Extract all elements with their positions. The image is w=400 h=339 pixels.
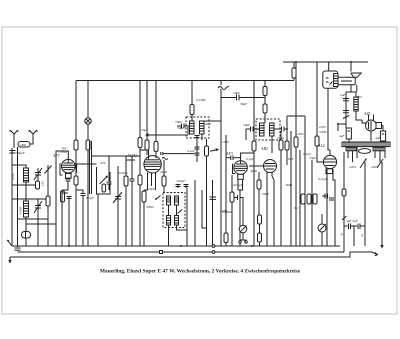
arrow mains right [372, 252, 378, 256]
potentiometer P-vol [239, 211, 247, 240]
capacitor C-y156b [130, 156, 135, 246]
resistor Rk2 [142, 190, 146, 246]
svg-text:30μF: 30μF [177, 126, 185, 130]
svg-text:AL5: AL5 [204, 122, 211, 126]
wire y160 link [126, 159, 135, 161]
capacitor C-b1 [67, 197, 72, 199]
switch S1 [343, 116, 349, 119]
svg-text:250V: 250V [297, 132, 305, 136]
svg-text:50μF: 50μF [243, 123, 251, 127]
wire drop x156 [155, 81, 157, 142]
capacitor C5b [358, 224, 365, 230]
svg-text:GBD: GBD [20, 143, 27, 147]
capacitor C-IF1-left [177, 124, 190, 129]
svg-text:38μF: 38μF [240, 102, 248, 106]
capacitor C20 [322, 194, 328, 199]
capacitor trimmer T3 [113, 192, 122, 203]
wire speaker tail [350, 85, 352, 93]
wire stub x354 [353, 226, 355, 246]
wire x272 drop [272, 176, 274, 246]
resistor R17 [342, 189, 346, 252]
capacitor trimmer T1 [34, 168, 42, 185]
wire HT bus B [76, 80, 294, 82]
coil L1 [24, 168, 29, 182]
wire AL4 plate [328, 88, 330, 150]
wire x267 drop [266, 180, 268, 246]
wire L-link [202, 190, 207, 228]
wire grid cap ACH1 [140, 150, 149, 157]
svg-text:4MΩ: 4MΩ [250, 169, 258, 173]
wire plate to IF1 [168, 153, 195, 155]
coil GBD box [18, 142, 30, 148]
node J4 [337, 123, 339, 125]
wire rail x56 [55, 160, 57, 246]
svg-text:60V: 60V [288, 157, 294, 161]
resistor Rg3 [138, 157, 142, 246]
wire T-out primary up [328, 62, 330, 71]
wire x118 rail [117, 166, 119, 246]
resistor R7 [263, 86, 267, 98]
wire AF7 plate [75, 163, 97, 165]
svg-text:50μF: 50μF [141, 128, 149, 132]
capacitor El1 [346, 128, 351, 142]
arrow mains right2 [381, 240, 383, 248]
coil Losc4 [175, 216, 179, 226]
lamp dial [85, 118, 91, 124]
coil IF1a [190, 121, 195, 134]
resistor R16 [315, 62, 323, 162]
capacitor C-IF2-left [246, 127, 260, 132]
svg-text:30μF: 30μF [262, 192, 270, 196]
wire speaker drop [350, 62, 352, 72]
transformer T-out box [323, 71, 338, 88]
wire x187 rail [186, 188, 188, 246]
resistor R3b [145, 140, 149, 155]
wire AB2 stubs [266, 172, 268, 180]
svg-text:50μF: 50μF [309, 156, 317, 160]
wire drop x254 [253, 81, 255, 141]
wire AVC y97 [221, 97, 236, 99]
switch voltage selector [360, 159, 366, 168]
resistor R1 [74, 137, 78, 155]
resistor R-a2 [46, 196, 50, 206]
capacitor C-det2 [195, 139, 200, 162]
capacitor C-IF2-right [274, 127, 288, 132]
capacitor trimmer T0 [45, 166, 52, 174]
coil IF2b [270, 123, 275, 136]
wire ant links [13, 141, 15, 148]
svg-text:50μF: 50μF [233, 91, 241, 95]
wire rail x83 [82, 196, 84, 246]
wire y226 [344, 225, 348, 227]
resistor Ro1 [162, 160, 166, 193]
resistor R15 [313, 194, 317, 204]
svg-text:4μF: 4μF [375, 136, 381, 140]
resistor R6 [252, 140, 256, 158]
transformer T-mains sec L [346, 148, 357, 151]
svg-text:1MΩ: 1MΩ [277, 136, 285, 140]
connector sq1 [160, 251, 163, 254]
capacitor C-osc-pad [210, 197, 217, 199]
svg-text:20μF: 20μF [148, 187, 156, 191]
svg-text:2MΩ: 2MΩ [285, 183, 293, 187]
tube AF3 [233, 161, 248, 180]
wire x236 link [238, 189, 240, 191]
wire AF7 cathode [67, 173, 69, 179]
resistor Rg2 [124, 156, 128, 246]
wire AF3 plate [249, 165, 263, 167]
node J3 [68, 245, 70, 247]
capacitor C-det [234, 195, 243, 211]
svg-text:5μF 5μF: 5μF 5μF [346, 219, 359, 223]
coil Losc1 [167, 196, 171, 205]
tube AZ1 [366, 115, 382, 132]
svg-text:AF3: AF3 [225, 151, 233, 156]
resistor R5 [190, 104, 194, 117]
wire y193 [62, 192, 68, 194]
capacitor C-ach [161, 152, 168, 155]
resistor R-det [205, 146, 209, 156]
svg-text:150: 150 [41, 181, 45, 186]
coil Losc3 [167, 216, 171, 226]
speaker horn [351, 73, 361, 77]
svg-text:4μF: 4μF [339, 134, 345, 138]
wire x208 rail + resistor det [206, 139, 208, 246]
wire IF1 in/out [191, 117, 193, 121]
svg-text:40V: 40V [100, 161, 106, 165]
svg-text:ACH1: ACH1 [126, 153, 137, 158]
capacitor CIF1 [195, 135, 200, 139]
coil IF1b [200, 121, 205, 134]
wire x296 rail [295, 62, 297, 246]
resistor R-sg [74, 176, 78, 185]
resistor R8 [263, 98, 267, 120]
capacitor Cosc1 [176, 184, 181, 188]
wire x212 rail [212, 180, 214, 246]
svg-text:2MΩ: 2MΩ [160, 170, 168, 174]
svg-text:170V: 170V [355, 95, 363, 99]
wire x305 rail [304, 116, 306, 246]
wire AZ1 leads [362, 120, 366, 123]
resistor R10 [279, 131, 283, 246]
wire x98 drop [97, 194, 99, 246]
resistor Rk3 [230, 175, 234, 246]
wire mains rail x344 [343, 152, 345, 189]
svg-text:240V: 240V [371, 165, 379, 169]
choke Lf [354, 92, 362, 120]
coil IF2a [260, 123, 265, 136]
svg-text:2μF: 2μF [340, 93, 346, 97]
resistor R-k [61, 191, 65, 202]
wire y135 link [146, 127, 188, 136]
ground left [7, 240, 12, 246]
svg-text:0,1: 0,1 [361, 233, 364, 237]
capacitor Cf1 [343, 99, 349, 101]
resistor R4 [154, 141, 158, 154]
wire AL4 below [326, 169, 328, 246]
connector sq2 [212, 245, 215, 248]
wire rail x48 [47, 165, 49, 246]
capacitor C-k2 [76, 190, 86, 196]
wire x69 drop [68, 196, 70, 246]
svg-text:50Hz~: 50Hz~ [319, 130, 328, 134]
coil L2 [24, 201, 29, 217]
tube ACH1 [144, 152, 161, 173]
svg-text:100μF: 100μF [177, 179, 187, 183]
resistor R-AB3 [258, 233, 262, 246]
wire drop x88 [87, 81, 89, 119]
capacitor C-bot [15, 248, 21, 250]
wire IF2 in/out [264, 119, 266, 123]
wire tuner connections [12, 165, 26, 168]
capacitor C-y156a [107, 156, 112, 190]
antenna A1 [10, 131, 19, 142]
wire AF3 stubs [237, 179, 239, 190]
resistor R2 [86, 139, 90, 155]
wire drop x76 [75, 81, 77, 138]
resistor R-ant [36, 181, 40, 189]
wire x221 lower [220, 89, 222, 246]
svg-text:Mauerling, Einzel Super E 47 W: Mauerling, Einzel Super E 47 W, Wechsels… [100, 269, 301, 275]
wire x300 rail [299, 150, 301, 246]
resistor R14 [307, 194, 311, 204]
svg-text:220V: 220V [349, 165, 357, 169]
transformer T-mains sec R [373, 148, 385, 151]
speaker driver [338, 77, 355, 84]
wire drop x147 [146, 81, 148, 141]
wire HT bus A [283, 61, 368, 63]
wire rail x17.5 [17, 147, 19, 247]
wire drop x192 [191, 81, 193, 105]
resistor R-226 [224, 233, 228, 243]
wire bottom bus 1 [12, 245, 340, 247]
tube AB2 [264, 160, 277, 173]
wire bottom bus 3 [10, 252, 372, 257]
wire x140 lower [139, 150, 141, 157]
svg-text:AB2: AB2 [260, 146, 268, 151]
svg-text:100V: 100V [222, 140, 230, 144]
switch voltage selector 2 [377, 159, 383, 168]
svg-text:300Ω: 300Ω [146, 205, 154, 209]
resistor R-AB [257, 172, 261, 215]
wire rail x38 lower [37, 219, 39, 246]
node J2 [350, 61, 352, 63]
capacitor C-ant [10, 151, 16, 154]
wire bypass y116 [287, 115, 305, 117]
coil L3 box [22, 232, 31, 239]
potentiometer P1 [318, 214, 326, 246]
resistor R11 [285, 116, 289, 165]
wire drop x221 [220, 81, 222, 86]
wire AF7 grid [56, 151, 68, 160]
squiggle osc inject [162, 158, 168, 160]
wire x254 lower [253, 153, 255, 246]
wire osc links [168, 205, 170, 216]
svg-text:AL4: AL4 [317, 143, 325, 148]
wire drop x140 [139, 81, 141, 138]
coil T-out winding [334, 74, 338, 87]
tube AF7 stem [66, 174, 72, 179]
node Jb1 [180, 245, 182, 247]
resistor R3 [138, 137, 142, 150]
shielded lead double [90, 141, 92, 194]
wire x195 rail [194, 180, 196, 246]
resistor R-AB2 [258, 215, 262, 233]
transformer T-mains oval [359, 149, 371, 154]
wire drop x265 [264, 81, 266, 87]
arrow mains left [9, 257, 11, 263]
arrow osc tuning1 [155, 196, 160, 200]
oscillator dashed box [163, 193, 185, 228]
svg-text:50μF: 50μF [175, 120, 183, 124]
wire x291 rail [290, 131, 292, 246]
wire ACH1 stubs [144, 173, 148, 190]
capacitor C5a [349, 224, 358, 230]
tube AF7 [60, 159, 77, 175]
capacitor C-kAF7 [62, 179, 71, 190]
tube AL4 [323, 150, 337, 174]
resistor R-box [102, 184, 106, 192]
trimmer squiggle [218, 86, 229, 90]
node Jb2 [251, 245, 253, 247]
svg-text:0,1: 0,1 [341, 232, 344, 236]
wire x240 drop [239, 190, 241, 246]
band switch box [97, 167, 111, 194]
wire rail x365 [364, 162, 366, 246]
arrow det [210, 149, 218, 152]
capacitor Cosc2 [184, 184, 189, 188]
capacitor trimmer T2 [34, 199, 42, 219]
node J1 [295, 61, 297, 63]
wire taps left [347, 151, 349, 158]
capacitor El2 [380, 126, 385, 142]
wire x88 lower [87, 155, 89, 246]
wire bottom bus 2 [18, 251, 345, 253]
wire x76 lower [75, 155, 77, 246]
svg-text:220V: 220V [319, 125, 327, 129]
svg-text:AZ1: AZ1 [363, 111, 371, 116]
wire x62 drop [61, 190, 63, 246]
capacitor C21 [329, 198, 334, 200]
wire x88 mid [87, 124, 89, 139]
wire x312 rail [311, 160, 313, 246]
wire J4 link [338, 123, 346, 125]
transformer T-mains primary [342, 142, 390, 147]
wire y156 [92, 155, 141, 157]
wire taps right [374, 151, 376, 158]
antenna A2 [29, 131, 38, 142]
capacitor C-gAF3 [226, 156, 241, 161]
wire AF3 grid [241, 153, 254, 161]
svg-text:50μμF: 50μμF [16, 151, 26, 155]
resistor R-link between buses [292, 62, 296, 81]
resistor R13 [301, 194, 305, 204]
capacitor C-couple [237, 95, 266, 101]
capacitor Cf2 [343, 111, 349, 113]
arrow osc tuning2 [178, 210, 183, 214]
IF2 dashed box [256, 119, 280, 140]
IF1 dashed box [186, 117, 209, 138]
resistor R12 [294, 137, 298, 147]
wire rect rail [345, 92, 347, 128]
wire x226 rail [225, 135, 227, 246]
connector terminals [239, 240, 247, 243]
switch S-mains [342, 214, 347, 252]
wire left rail x12 [11, 148, 13, 246]
wire mains rail x382 [381, 162, 383, 240]
coil Losc2 [175, 196, 179, 205]
wire driver tail [356, 85, 358, 92]
